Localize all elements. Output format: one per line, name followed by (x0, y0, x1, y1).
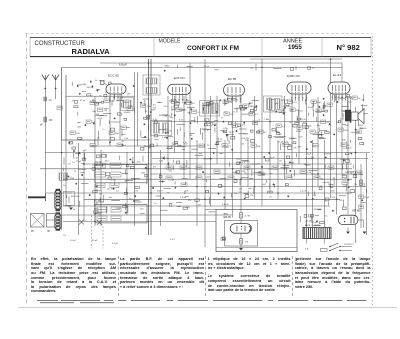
wire antenna 2 lead (55, 80, 57, 99)
wire drop (277, 140, 279, 199)
ground tube7 (346, 232, 350, 235)
wire connector to triode (104, 83, 109, 86)
converter stage components value labels (144, 100, 194, 150)
wire drop (312, 140, 314, 227)
coil disc a (154, 123, 160, 133)
capacitor/resistor (311, 100, 316, 103)
wire drop (269, 97, 271, 193)
junction antenna 1 (44, 88, 46, 90)
switch push-button unit (31, 214, 59, 228)
wire drop (134, 72, 136, 226)
wire thick dial pointer (28, 196, 45, 198)
FM tuner components value labels (72, 80, 134, 143)
variable capacitor gang section 1 (55, 189, 61, 211)
wire bus (40, 168, 352, 170)
junction (210, 158, 212, 160)
junction (261, 173, 263, 175)
junction antenna 2 (55, 88, 57, 90)
junction (232, 168, 234, 170)
wire drop (137, 72, 139, 146)
capacitor mid (181, 183, 187, 186)
tone correction components (218, 152, 297, 199)
keyboard switch components (92, 154, 147, 213)
wire drop (247, 140, 249, 187)
junction (150, 192, 152, 194)
junction (126, 205, 128, 207)
wire drop (224, 140, 226, 210)
capacitor/resistor (251, 144, 256, 147)
capacitor/resistor (316, 109, 321, 112)
wire bus (63, 220, 216, 222)
tube V5 EL84 output (328, 73, 350, 100)
wire bus (62, 139, 150, 141)
capacitor/resistor (117, 143, 122, 146)
capacitor/resistor (223, 100, 228, 103)
wire drop (126, 152, 128, 215)
junction (269, 121, 271, 123)
capacitor row5b (111, 216, 121, 221)
wire drop (336, 95, 338, 215)
oscillator block box (64, 192, 75, 206)
mechanical link dashed 1 (91, 215, 93, 249)
capacitor mid (166, 176, 172, 179)
wire OT primary 1 (347, 96, 349, 110)
wire drop (210, 96, 212, 206)
coil IF3a (267, 99, 273, 110)
capacitor/resistor (253, 121, 258, 124)
capacitor/resistor (121, 126, 126, 129)
capacitor mid (286, 176, 292, 179)
capacitor/resistor (70, 131, 75, 134)
junction (134, 178, 136, 180)
coil IF1a (146, 78, 157, 84)
wire osc block (66, 192, 72, 194)
wire bus (84, 163, 352, 165)
IF stage components value labels (204, 100, 259, 149)
capacitor/resistor (297, 126, 302, 129)
top bus components (164, 64, 311, 72)
wire HT rail b (150, 59, 152, 235)
capacitor/resistor (109, 131, 114, 134)
capacitor row3b (110, 183, 119, 188)
wire bus (63, 178, 352, 180)
capacitor mid (180, 166, 186, 169)
switch section box 2 (95, 205, 147, 223)
resistor filter (360, 180, 363, 186)
AF preamp components value labels (153, 156, 208, 210)
wire bus (63, 205, 330, 207)
capacitor switch row2 (110, 172, 121, 177)
wire drop (330, 59, 332, 193)
wire drop (159, 150, 161, 226)
capacitor/resistor (222, 144, 227, 147)
switch mains (329, 243, 352, 251)
IF can T3 box (264, 96, 283, 112)
tone correction components value labels (220, 157, 295, 198)
capacitor mid (196, 166, 202, 169)
wire drop (109, 94, 111, 146)
wire drop (65, 75, 67, 206)
capacitor/resistor (199, 144, 204, 147)
capacitor filter 1 (359, 195, 364, 198)
capacitor mid (196, 176, 202, 179)
wire OT primary 2 (350, 96, 352, 110)
capacitor row5 (97, 216, 107, 221)
capacitor/resistor (57, 106, 62, 109)
power supply components value labels (304, 154, 364, 212)
page outer dashed border top (26, 33, 372, 35)
wire transfo sec 2 (324, 239, 326, 244)
wire bus (84, 198, 340, 200)
capacitor/resistor (356, 130, 361, 133)
wire drop (254, 96, 256, 199)
capacitor mid (214, 170, 220, 173)
junction (94, 221, 96, 223)
junction (148, 168, 150, 170)
IF stage components (200, 99, 259, 151)
tube V7 EZ80 rectifier (338, 215, 358, 224)
mains filter parts (300, 214, 324, 226)
junction (83, 163, 85, 165)
transformer power ALIM (303, 228, 331, 239)
tube V6 EM85 magic eye (230, 224, 251, 234)
wire drop (366, 153, 368, 235)
tube V3 EF85 IF (224, 77, 245, 102)
capacitor/resistor (86, 120, 91, 123)
capacitor/resistor (90, 101, 95, 104)
resistor switch row1 (95, 163, 106, 168)
resistor R grid 4,7M (240, 213, 243, 219)
capacitor/resistor (288, 100, 293, 103)
junction (330, 58, 332, 60)
page outer dotted border right (371, 36, 373, 305)
tube V2 ECH81 (168, 76, 191, 101)
junction (148, 62, 150, 64)
junction (277, 192, 279, 194)
junction (183, 163, 185, 165)
junction (336, 199, 338, 201)
tube pin junctions (171, 99, 187, 104)
resistor R cathode 1M (240, 239, 243, 245)
capacitor/resistor (258, 130, 263, 133)
dial assembly box (216, 210, 297, 252)
capacitor/resistor (141, 104, 146, 107)
wire drop (174, 96, 176, 153)
wire bus (250, 58, 342, 60)
capacitor/resistor (171, 100, 176, 103)
antenna FM dipole left (42, 75, 49, 81)
junction (317, 173, 319, 175)
wire bus (152, 121, 330, 123)
wire bus (66, 95, 135, 97)
coil disc b (163, 123, 169, 133)
wire drop (100, 150, 102, 226)
capacitor ant coupling (44, 97, 47, 101)
oscillator coil box (121, 98, 134, 111)
wire drop (298, 95, 300, 165)
variable capacitor gang section 2 (55, 212, 61, 230)
coil IF2b (212, 103, 219, 114)
wire drop (347, 96, 349, 215)
capacitor/resistor (327, 103, 332, 106)
coil MF box (59, 173, 68, 181)
junction (355, 152, 357, 154)
wire bus (60, 214, 232, 216)
capacitor switch row1 (110, 163, 121, 168)
wire bus (45, 152, 370, 154)
ground osc block (69, 208, 73, 211)
AF preamp components (152, 152, 215, 212)
coil osc (123, 100, 131, 108)
capacitor dial (221, 238, 226, 241)
capacitor/resistor (283, 143, 288, 146)
junction (196, 186, 198, 188)
tube pin junctions (109, 97, 123, 102)
capacitor/resistor (243, 104, 248, 107)
capacitor/resistor (98, 108, 103, 111)
wire drop (196, 140, 198, 226)
coil IF3b (275, 99, 281, 110)
wire bus (152, 158, 368, 160)
capacitor/resistor (321, 120, 326, 123)
wire rect cathode (347, 228, 349, 232)
capacitor/resistor (341, 143, 346, 146)
wire drop (317, 97, 319, 187)
capacitor mid (328, 166, 334, 169)
capacitor/resistor (172, 143, 177, 146)
wire diagonal 3 (97, 220, 102, 225)
output stage components value labels (336, 98, 366, 151)
discriminator box (151, 121, 172, 136)
text column 4 (295, 257, 371, 289)
coil IF2a (203, 103, 210, 114)
wire V6 cathode (240, 244, 242, 248)
box around magic eye (225, 221, 258, 246)
loudspeaker HP (351, 109, 364, 124)
wire drop (360, 164, 362, 228)
wire drop (284, 96, 286, 179)
capacitor mid (228, 176, 234, 179)
text column separator 1 (118, 256, 119, 296)
wire bus (150, 186, 366, 188)
wire drop (189, 63, 191, 179)
capacitor/resistor (104, 99, 109, 102)
capacitor mid (258, 172, 264, 175)
capacitor/resistor (249, 112, 254, 115)
wire heater in box (216, 247, 297, 249)
capacitor mid (166, 166, 172, 169)
ground rectifier (363, 232, 367, 235)
capacitor mid (244, 166, 250, 169)
wire drop (94, 96, 96, 226)
antenna AM right (52, 75, 59, 81)
capacitor/resistor (290, 108, 295, 111)
junction (61, 152, 63, 154)
wire into dial box (205, 209, 216, 211)
capacitor/resistor (338, 128, 343, 131)
capacitor mid (342, 181, 348, 184)
capacitor/resistor (352, 96, 357, 99)
text column separator 2 (205, 256, 206, 296)
ground V6 (239, 248, 243, 251)
wire diagonal 1 (79, 220, 84, 225)
wire drop (324, 140, 326, 227)
wire drop (83, 150, 85, 221)
junction (306, 199, 308, 201)
wire drop (167, 96, 169, 164)
header box (30, 38, 371, 57)
coil ant (44, 117, 47, 122)
wire drop (183, 96, 185, 179)
fuse (321, 249, 328, 252)
junction (284, 168, 286, 170)
capacitor mid (272, 166, 278, 169)
wire drop (291, 95, 293, 169)
IF can T2 box (200, 101, 220, 117)
wire drop (240, 96, 242, 212)
wire drop (306, 95, 308, 228)
text column separator 3 (292, 256, 293, 296)
junction (261, 67, 263, 69)
wire antenna 1 lead (44, 80, 46, 197)
mechanical link dashed 2 (102, 226, 104, 249)
keyboard switch components value labels (92, 160, 146, 210)
wire diagonal 4 (97, 220, 102, 225)
FM tuner components (69, 81, 135, 146)
capacitor mid (356, 171, 362, 174)
junction (330, 186, 332, 188)
tube V4 EABC80 (287, 74, 311, 101)
wire osc block v (68, 196, 70, 203)
wire pointer tick (44, 194, 46, 202)
coil IF1b (146, 88, 157, 94)
mains filter parts value labels (306, 215, 328, 227)
wire diagonal 2 (79, 220, 84, 225)
wire drop (355, 107, 357, 243)
capacitor row3 (96, 183, 105, 188)
text column 2 (120, 257, 204, 289)
wire drop (61, 67, 63, 230)
capacitor/resistor (276, 124, 281, 127)
capacitor mid (300, 170, 306, 173)
capacitor filter 2 (359, 205, 364, 208)
tube V1 ECC85 FM (106, 74, 126, 101)
wire transfo sec 1 (306, 239, 308, 244)
wire drop (261, 59, 263, 206)
capacitor row4b (111, 207, 121, 212)
wire HT rail a (148, 59, 150, 235)
wire drop (77, 143, 79, 235)
text column 3 (208, 257, 291, 292)
capacitor/resistor (186, 101, 191, 104)
top bus components value labels (165, 65, 316, 71)
switch section box 1 (95, 165, 147, 183)
capacitor/resistor (192, 110, 197, 113)
junction (240, 178, 242, 180)
wire drop (216, 96, 218, 164)
wire bus (90, 145, 205, 147)
detector stage components (269, 98, 331, 150)
page bottom scan edge (18, 307, 397, 309)
wire drop (232, 96, 234, 218)
wire drop (119, 94, 121, 140)
capacitor mid (314, 176, 320, 179)
wire bus (100, 62, 342, 64)
capacitor/resistor (127, 107, 132, 110)
capacitor 0,1 dial (222, 237, 225, 240)
junction (254, 186, 256, 188)
transformer output OT (345, 110, 350, 121)
wire resistor to V6 (240, 218, 242, 224)
wire bus (46, 192, 352, 194)
connector F antenna input (101, 81, 105, 85)
junction (94, 168, 96, 170)
resistor switch row2 (95, 172, 106, 177)
wire drop (341, 63, 343, 174)
wire bus (62, 66, 343, 68)
FM tuner box outer (62, 67, 101, 140)
wire EZ80 cathode out (358, 219, 364, 221)
capacitor/resistor (207, 122, 212, 125)
IF can T1 box (143, 75, 160, 95)
text column 1 (31, 257, 116, 294)
tube pin junctions (227, 98, 241, 103)
junction (204, 199, 206, 201)
capacitor/resistor (310, 130, 315, 133)
capacitor row4 (97, 207, 107, 212)
converter stage components (140, 99, 198, 150)
wire drop (204, 59, 206, 247)
capacitor/resistor (176, 108, 181, 111)
wire bus (150, 173, 361, 175)
capacitor/resistor (232, 124, 237, 127)
wire V6 to resistor (240, 233, 242, 238)
junction (160, 173, 162, 175)
oscillator components value labels (63, 150, 87, 211)
detector stage components value labels (264, 100, 326, 150)
oscillator components (63, 147, 90, 207)
capacitor/resistor (313, 144, 318, 147)
wire to ground right (363, 220, 365, 228)
tube pin junctions (291, 97, 307, 102)
tube pin junctions (331, 97, 346, 102)
output stage components (333, 94, 367, 148)
capacitor/resistor (90, 144, 95, 147)
page outer dashed border left (26, 34, 28, 307)
power supply components (305, 153, 366, 212)
capacitor/resistor (224, 112, 229, 115)
